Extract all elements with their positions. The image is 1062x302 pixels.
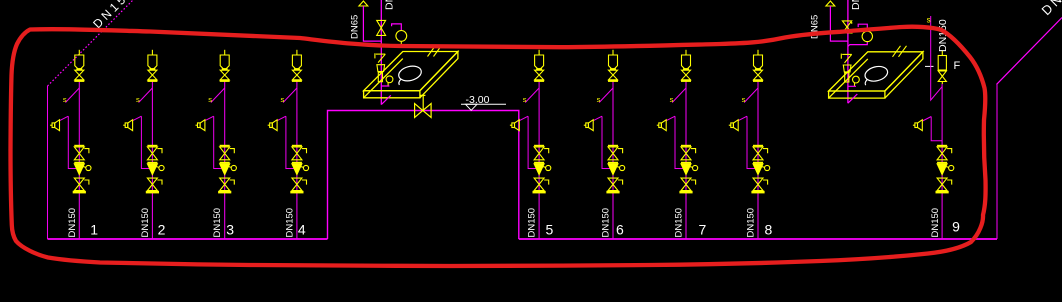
riser 7 assembly xyxy=(657,50,698,239)
wire plate outlet jog (middle) xyxy=(381,86,391,105)
svg-text:DN150: DN150 xyxy=(746,208,757,238)
annotation ellipse (right, white hand-drawn) xyxy=(862,64,890,85)
svg-text:DN150: DN150 xyxy=(674,208,685,238)
red annotation loop xyxy=(11,27,986,266)
wire bottom header left section xyxy=(48,238,328,240)
wire riser 9 xyxy=(941,84,943,239)
svg-text:8: 8 xyxy=(765,222,773,238)
wire right feed riser xyxy=(996,84,998,239)
wire gauge hook (right) xyxy=(848,24,867,46)
riser 3 assembly xyxy=(196,50,237,239)
svg-text:DN150: DN150 xyxy=(527,208,538,238)
svg-text:-3.00: -3.00 xyxy=(466,94,490,106)
svg-text:DN150: DN150 xyxy=(601,208,612,238)
riser 2 assembly xyxy=(123,50,164,239)
node supply diagonal DN150 (top-right) xyxy=(997,18,1062,85)
white tick (riser 9) xyxy=(925,65,934,67)
valve signal (right main) xyxy=(842,21,851,33)
svg-text:DN150: DN150 xyxy=(90,0,137,31)
wire gauge hook (middle) xyxy=(392,24,402,31)
valve signal (middle main) xyxy=(377,20,386,35)
air vent triangle (right) xyxy=(826,1,835,6)
alarm gong (riser 9) xyxy=(913,120,922,131)
svg-text:9: 9 xyxy=(952,219,960,235)
wire bottom header right section xyxy=(519,238,997,240)
svg-text:DN150: DN150 xyxy=(1039,0,1062,18)
elevation marker -3.00 xyxy=(461,104,506,110)
valve stack (riser 9) xyxy=(936,146,954,193)
svg-text:DN150: DN150 xyxy=(67,208,78,238)
svg-text:6: 6 xyxy=(616,222,624,238)
wire bridge xyxy=(328,111,519,240)
svg-text:DN150: DN150 xyxy=(284,208,295,238)
svg-text:DN150: DN150 xyxy=(383,0,395,10)
air vent triangle (middle) xyxy=(359,1,368,6)
svg-text:DN150: DN150 xyxy=(140,208,151,238)
svg-text:7: 7 xyxy=(699,222,707,238)
annotation ellipse (middle, white hand-drawn) xyxy=(395,64,423,85)
riser 8 assembly xyxy=(729,50,770,239)
svg-text:DN150: DN150 xyxy=(850,0,862,10)
wire vent branch (middle) xyxy=(363,6,381,41)
tank plate (middle) xyxy=(364,45,458,97)
riser 4 assembly xyxy=(268,50,309,239)
gauge circle (right) xyxy=(862,31,872,41)
vessel F (riser 9) xyxy=(938,51,946,84)
tank plate (right) xyxy=(829,46,923,98)
svg-text:DN150: DN150 xyxy=(212,208,223,238)
wire vent branch (right) xyxy=(830,6,848,41)
riser 5 assembly xyxy=(510,50,551,239)
riser 6 assembly xyxy=(584,50,625,239)
svg-text:3: 3 xyxy=(226,222,234,238)
svg-text:5: 5 xyxy=(546,222,554,238)
svg-text:s: s xyxy=(927,16,931,25)
wire left feed drop xyxy=(47,86,49,239)
pump unit (middle) xyxy=(375,53,393,86)
wire horn branch (riser 9) xyxy=(923,117,943,141)
svg-text:DN150: DN150 xyxy=(930,208,941,238)
svg-text:4: 4 xyxy=(298,222,306,238)
svg-text:DN65: DN65 xyxy=(349,15,360,39)
svg-text:F: F xyxy=(954,60,961,72)
wire main drop (right) xyxy=(847,0,849,103)
svg-text:1: 1 xyxy=(90,222,98,238)
svg-text:2: 2 xyxy=(158,222,166,238)
pump unit (right) xyxy=(841,54,859,87)
riser 1 assembly xyxy=(50,50,91,239)
wire main drop (middle) xyxy=(380,0,382,105)
wire plate outlet jog (right) xyxy=(848,86,857,103)
valve gate (bridge) xyxy=(415,95,432,117)
gauge circle (middle) xyxy=(396,31,407,42)
wire signal drop (riser 9) xyxy=(931,16,942,100)
node supply diagonal DN150 (top-left) xyxy=(48,0,134,86)
